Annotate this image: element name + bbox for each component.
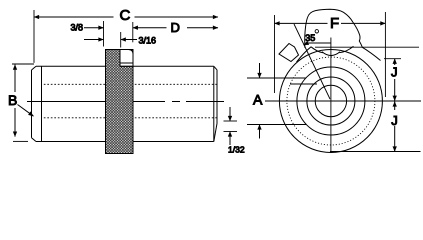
centerline left view — [27, 101, 224, 103]
dimension B line upper — [14, 65, 16, 92]
knob skirt circle — [279, 50, 382, 153]
svg-text:3/16: 3/16 — [139, 35, 157, 45]
knurl ring outline — [106, 50, 134, 154]
3/16 left arrow — [84, 39, 104, 41]
dimension B line lower — [14, 108, 16, 137]
body left inner ring line — [41, 66, 43, 141]
dimension A top arrow — [259, 63, 261, 78]
dimension F right extension — [384, 12, 386, 97]
body top line through collar — [120, 65, 133, 67]
dimension B top extension — [12, 63, 34, 65]
knurl ring — [106, 50, 134, 154]
phantom pointer at 35 deg — [279, 44, 299, 62]
svg-text:J: J — [391, 65, 398, 80]
hub circle — [307, 77, 355, 125]
bore hidden line top — [44, 83, 217, 85]
svg-text:D: D — [171, 20, 180, 35]
body right bottom chamfer — [214, 124, 217, 142]
pointer bottom scallops — [297, 46, 381, 62]
body right top chamfer — [214, 66, 217, 70]
J bottom extension — [330, 151, 421, 153]
body right inner ring line — [213, 66, 215, 141]
3/16 right arrow — [121, 39, 137, 41]
dimension A bottom extension — [247, 124, 307, 126]
svg-text:J: J — [391, 113, 398, 128]
right view vertical centerline — [330, 38, 332, 152]
3/8 arrow — [84, 27, 104, 29]
1/32 lower tick — [224, 131, 238, 133]
right view horizontal centerline — [265, 100, 421, 102]
dimension D extension line — [132, 22, 134, 42]
dimension A bottom arrow — [259, 125, 261, 139]
35 deg line — [294, 24, 330, 99]
body left bottom chamfer — [32, 138, 37, 142]
bore hidden line bottom — [44, 117, 217, 119]
dotted circle — [287, 57, 375, 145]
dimension J upper — [394, 59, 396, 65]
notch bottom edge — [120, 62, 133, 64]
svg-text:35: 35 — [305, 33, 315, 43]
body left top chamfer — [32, 66, 37, 70]
angle reference line — [315, 46, 419, 48]
1/32 lower arrow — [229, 132, 231, 146]
35 deg leader — [304, 43, 331, 45]
svg-text:F: F — [330, 15, 339, 32]
pointer outline — [305, 9, 362, 48]
degree symbol — [315, 30, 318, 33]
svg-text:1/32: 1/32 — [228, 145, 245, 155]
3/8 extension line — [103, 21, 105, 47]
leader arrow to left face — [18, 105, 34, 117]
dimension C extension line — [33, 10, 35, 63]
circle r34 — [297, 67, 365, 135]
dimension F left extension — [274, 15, 276, 93]
1/32 upper tick — [224, 120, 238, 122]
svg-text:C: C — [120, 7, 131, 24]
body outline top and bottom edges — [36, 66, 214, 141]
svg-text:3/8: 3/8 — [71, 23, 84, 33]
dimension F line — [275, 22, 328, 24]
J top extension — [384, 58, 401, 60]
body right edge — [216, 70, 218, 124]
dimension C line — [34, 16, 114, 18]
notch left edge — [119, 50, 121, 64]
phantom pointer lower line — [290, 83, 317, 85]
svg-text:B: B — [8, 92, 17, 108]
dimension A top extension — [247, 77, 306, 79]
shaft hole circle — [315, 85, 346, 116]
svg-text:A: A — [253, 91, 263, 107]
body left face — [31, 70, 33, 138]
dimension B bottom extension — [13, 140, 28, 142]
dimension J lower — [394, 102, 396, 111]
dimension D line — [133, 27, 167, 29]
1/32 upper arrow — [229, 107, 231, 121]
knurl smooth notch — [120, 50, 133, 67]
3/16 extension line — [120, 32, 122, 48]
